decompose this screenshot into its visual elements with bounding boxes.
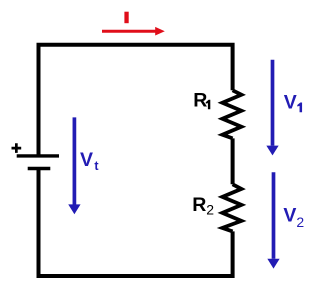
battery short plate (-) (28, 167, 51, 171)
svg-text:R: R (193, 89, 207, 111)
svg-text:Vt: Vt (80, 149, 99, 173)
current label I (124, 12, 128, 24)
wire: left wire below battery + bottom wire + right wire up to R2 (39, 169, 233, 277)
label V1 subscript 1 (297, 103, 302, 113)
wire between R1 and R2 (231, 138, 235, 184)
battery long plate (+) (17, 154, 59, 157)
arrow Vt (73, 117, 77, 204)
label R1 subscript 1 (206, 100, 211, 109)
battery plus sign (12, 143, 22, 153)
wire: left wire above battery + top wire + right wire down to R1 (39, 45, 233, 156)
svg-text:V2: V2 (283, 204, 304, 230)
arrow V2 (272, 172, 276, 259)
svg-text:R2: R2 (192, 194, 214, 218)
resistor R1 zigzag (222, 90, 241, 138)
current arrow (102, 30, 156, 33)
svg-text:V: V (284, 92, 297, 114)
resistor R2 zigzag (222, 184, 241, 231)
arrow V1 (271, 60, 275, 146)
